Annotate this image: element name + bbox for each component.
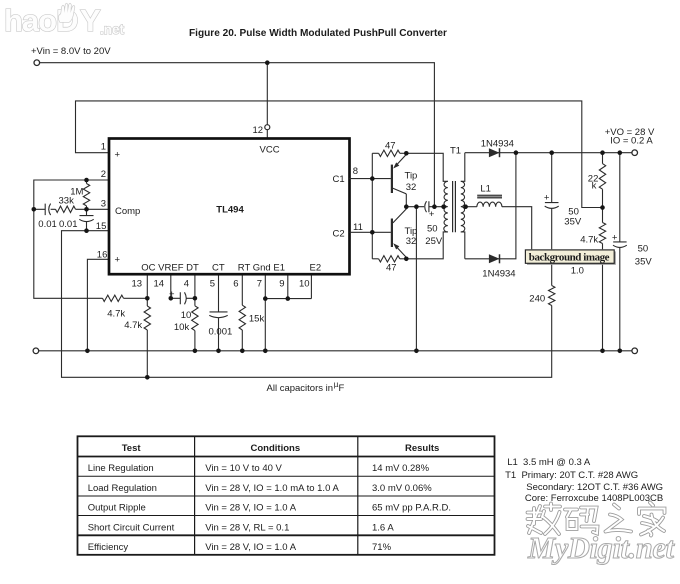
- junction pin9 link: [286, 296, 291, 301]
- svg-text:IO = 0.2 A: IO = 0.2 A: [610, 135, 653, 146]
- transistor Q2 collector: [393, 207, 406, 223]
- svg-text:16: 16: [97, 249, 108, 260]
- junction pin3 node: [84, 207, 89, 212]
- resistor 4.7k (output divider): [599, 223, 605, 244]
- junction pin8/base bus: [370, 176, 375, 181]
- transistor Q1 collector: [393, 188, 406, 206]
- junction pin7 link: [263, 296, 268, 301]
- svg-text:7: 7: [257, 279, 262, 290]
- svg-text:L1 3.5 mH @ 0.3 A: L1 3.5 mH @ 0.3 A: [507, 457, 591, 468]
- svg-text:15: 15: [96, 221, 107, 232]
- junction pin2/1M: [84, 178, 89, 183]
- svg-text:12: 12: [253, 125, 264, 136]
- svg-text:Vin = 28 V, IO = 1.0 A: Vin = 28 V, IO = 1.0 A: [205, 503, 297, 514]
- resistor 10k (pin4 to ground): [192, 306, 198, 331]
- svg-text:1N4934: 1N4934: [481, 139, 514, 150]
- svg-text:T1 Primary: 20T C.T. #28 AWG: T1 Primary: 20T C.T. #28 AWG: [505, 470, 638, 481]
- junction diode riser/output rail: [514, 150, 519, 155]
- svg-text:Conditions: Conditions: [251, 443, 301, 454]
- svg-text:Tip: Tip: [405, 226, 418, 237]
- svg-text:C2: C2: [333, 229, 345, 240]
- wire T1 secondary bottom riser: [461, 232, 465, 259]
- resistor 4.7k (vertical, pin13 to feedback rail): [144, 306, 150, 330]
- output +VO terminal: [632, 150, 638, 156]
- wire 4.7k to pin13 node: [124, 297, 148, 299]
- wire pin5 CT lead: [218, 274, 220, 312]
- svg-text:1: 1: [101, 142, 106, 153]
- svg-text:VCC: VCC: [260, 145, 280, 156]
- wire top +Vin rail to transformer center-tap drop: [40, 63, 435, 207]
- watermark chinese characters (shu ma zhi jia), outlined strokes: [528, 503, 665, 536]
- table row line 4: [78, 515, 495, 517]
- junction 10k/ground: [193, 349, 198, 354]
- svg-text:Tip: Tip: [405, 170, 418, 181]
- svg-text:Vin = 28 V, IO = 1.0 A: Vin = 28 V, IO = 1.0 A: [205, 542, 297, 553]
- svg-text:Secondary: 12OT C.T. #36 AWG: Secondary: 12OT C.T. #36 AWG: [526, 482, 663, 493]
- transformer T1 secondary winding: [461, 181, 465, 232]
- table column line 1: [194, 436, 196, 555]
- svg-text:+: +: [612, 233, 618, 244]
- capacitor 0.01 (pin3 to pin15): [79, 209, 93, 230]
- svg-text:1N4934: 1N4934: [482, 268, 515, 279]
- junction pin7/ground: [263, 349, 268, 354]
- svg-text:+: +: [544, 193, 550, 204]
- table column line 2: [357, 436, 359, 555]
- diode D2 1N4934 (bottom): [489, 254, 500, 263]
- resistor 240: [549, 286, 555, 306]
- wire 10k to ground rail: [194, 331, 196, 351]
- junction 22k/output rail: [600, 150, 605, 155]
- svg-text:Line Regulation: Line Regulation: [88, 463, 154, 474]
- transistor Q1 emitter with arrow: [395, 153, 406, 166]
- svg-text:+: +: [115, 150, 121, 161]
- svg-text:10: 10: [181, 310, 192, 321]
- svg-text:4.7k: 4.7k: [124, 320, 142, 331]
- wire pin7 Gnd lead to ground rail: [264, 274, 266, 351]
- svg-text:33k: 33k: [59, 195, 75, 206]
- junction pin12/Vin rail: [265, 60, 270, 65]
- wire pin3 Comp lead: [76, 208, 110, 210]
- wire pin15 to bottom feedback rail: [62, 231, 552, 378]
- pin 12 terminal circle: [265, 125, 270, 130]
- junction cap 50/35V left/output rail: [549, 150, 554, 155]
- resistor 33k: [56, 206, 76, 212]
- capacitor 50/35V (right, polarized): [613, 153, 627, 351]
- svg-text:F: F: [339, 383, 345, 394]
- junction cap 50/35V right/output rail: [618, 150, 623, 155]
- svg-text:35V: 35V: [564, 217, 582, 228]
- svg-text:RT Gnd E1: RT Gnd E1: [238, 263, 285, 274]
- svg-text:1.6 A: 1.6 A: [372, 523, 394, 534]
- wire output rail (diode cathodes to +VO terminal): [465, 152, 632, 154]
- wire base bus vertical: [371, 153, 373, 258]
- junction T1 secondary center tap: [463, 204, 468, 209]
- svg-text:14: 14: [154, 279, 165, 290]
- svg-text:25V: 25V: [425, 236, 443, 247]
- svg-text:0.01: 0.01: [59, 219, 78, 230]
- junction 47/Q1 emitter: [404, 151, 409, 156]
- svg-text:Vin = 28 V, RL = 0.1: Vin = 28 V, RL = 0.1: [205, 523, 289, 534]
- svg-text:35V: 35V: [635, 257, 653, 268]
- capacitor 0.001 (pin5 to ground): [209, 312, 227, 351]
- transistor Q2 emitter with arrow: [395, 245, 406, 259]
- svg-text:65 mV pp P.A.R.D.: 65 mV pp P.A.R.D.: [372, 503, 451, 514]
- table row line 5: [78, 534, 495, 536]
- junction pin11/base bus: [370, 230, 375, 235]
- junction cap 50/25V left: [414, 204, 419, 209]
- junction pin4/cap 10: [193, 296, 198, 301]
- svg-text:0.001: 0.001: [209, 327, 233, 338]
- svg-text:+: +: [115, 255, 121, 266]
- svg-text:9: 9: [279, 279, 284, 290]
- wire collector node to ground drop: [406, 207, 416, 351]
- wire pin11 C2 stub to Q2 base: [350, 231, 391, 233]
- svg-text:32: 32: [406, 182, 417, 193]
- svg-text:3.0 mV 0.06%: 3.0 mV 0.06%: [372, 483, 432, 494]
- svg-text:Vin = 10 V to 40 V: Vin = 10 V to 40 V: [205, 463, 282, 474]
- node +Vin input terminal: [34, 60, 40, 66]
- svg-text:4.7k: 4.7k: [580, 234, 598, 245]
- capacitor 10 (pin14 to pin4, polarized): [180, 292, 195, 304]
- junction node A divider tap: [600, 205, 605, 210]
- svg-text:11: 11: [353, 222, 363, 233]
- junction 47/Q2 emitter: [404, 257, 409, 262]
- resistor 4.7k (horizontal, pin13 row): [103, 295, 124, 301]
- svg-text:Output Ripple: Output Ripple: [88, 503, 146, 514]
- svg-text:4: 4: [184, 279, 189, 290]
- resistor 47 (bottom): [372, 258, 378, 260]
- diode D1 1N4934 (top): [489, 148, 500, 157]
- inductor L1 core bars: [477, 196, 502, 198]
- wire 22k to node A: [602, 189, 604, 222]
- junction cap 0.01 left column: [32, 207, 37, 212]
- svg-text:10k: 10k: [174, 322, 190, 333]
- svg-text:.net: .net: [100, 22, 125, 37]
- svg-text:47: 47: [385, 140, 396, 151]
- svg-text:71%: 71%: [372, 542, 392, 553]
- svg-text:4.7k: 4.7k: [107, 309, 125, 320]
- wire L1 output down to hidden node: [502, 207, 532, 250]
- ground rail: [39, 350, 632, 352]
- svg-text:1.0: 1.0: [571, 266, 584, 277]
- ground right terminal: [632, 348, 638, 354]
- svg-text:CT: CT: [212, 263, 225, 274]
- junction collector drop/ground: [414, 349, 419, 354]
- wire pin4 lead: [194, 274, 196, 306]
- svg-text:0.01: 0.01: [38, 219, 57, 230]
- svg-text:E2: E2: [310, 263, 322, 274]
- svg-text:2: 2: [101, 169, 106, 180]
- svg-text:All capacitors in: All capacitors in: [267, 383, 334, 394]
- junction pin13 node: [145, 296, 150, 301]
- wire bottom diode run: [465, 153, 516, 259]
- svg-text:Results: Results: [405, 443, 439, 454]
- wire secondary center tap to L1: [465, 206, 477, 208]
- svg-text:Comp: Comp: [115, 206, 140, 217]
- wire T1 secondary top riser: [461, 153, 465, 182]
- wire Q1 emitter to T1 primary top: [406, 153, 448, 181]
- svg-text:10: 10: [299, 279, 310, 290]
- svg-text:OC VREF DT: OC VREF DT: [141, 263, 199, 274]
- junction 15k/ground: [240, 349, 245, 354]
- table header separator: [78, 456, 495, 458]
- transistor Q2 Tip32 (bottom): base bar: [391, 219, 393, 248]
- wire T1 primary bottom to Q2 emitter: [406, 232, 448, 259]
- junction Vin drop/center tap: [432, 204, 437, 209]
- resistor 1M (pin2 to pin3): [86, 180, 88, 184]
- wire 4.7k lower lead to ground (passes tooltip box): [602, 244, 604, 351]
- wire 15k to ground rail: [241, 330, 243, 351]
- junction divider 4.7k/ground: [600, 349, 605, 354]
- junction pin16/ground: [85, 349, 90, 354]
- svg-text:15k: 15k: [249, 313, 265, 324]
- table outer border: [78, 436, 495, 555]
- svg-text:Test: Test: [122, 443, 142, 454]
- svg-text:8: 8: [353, 166, 358, 177]
- svg-text:14 mV 0.28%: 14 mV 0.28%: [372, 463, 430, 474]
- svg-text:Vin = 28 V, IO = 1.0 mA to 1.0: Vin = 28 V, IO = 1.0 mA to 1.0 A: [205, 483, 339, 494]
- svg-text:Figure 20. Pulse Width Modulat: Figure 20. Pulse Width Modulated PushPul…: [189, 28, 447, 39]
- svg-text:TL494: TL494: [216, 204, 244, 215]
- junction output cap/ground: [618, 349, 623, 354]
- svg-text:32: 32: [406, 236, 417, 247]
- wire pin6 RT lead: [241, 274, 243, 305]
- inductor L1: [477, 202, 502, 207]
- wire 4.7k lower lead to feedback rail: [146, 330, 148, 377]
- svg-text:3: 3: [101, 198, 106, 209]
- table row line 3: [78, 495, 495, 497]
- junction 4.7k/feedback rail: [145, 375, 150, 380]
- op-amp U1: IC TL494 body: [109, 139, 350, 275]
- svg-text:50: 50: [638, 244, 649, 255]
- transformer T1 primary winding: [444, 181, 448, 232]
- svg-text:6: 6: [233, 279, 238, 290]
- svg-text:Y: Y: [80, 3, 101, 38]
- capacitor 50/35V (left, polarized) upper lead: [545, 153, 559, 250]
- svg-text:Core: Ferroxcube 1408PL003CB: Core: Ferroxcube 1408PL003CB: [525, 493, 663, 504]
- junction collector node: [404, 204, 409, 209]
- wire pin2 to left column down to 4.7k row: [34, 180, 109, 298]
- svg-text:240: 240: [529, 294, 545, 305]
- wire pin12 VCC drop from +Vin rail: [266, 63, 268, 139]
- svg-text:47: 47: [386, 263, 397, 274]
- svg-text:+Vin = 8.0V to 20V: +Vin = 8.0V to 20V: [31, 46, 111, 57]
- capacitor 0.01 (series, left): [34, 204, 56, 216]
- wire pin14 lead: [171, 274, 181, 298]
- junction pin15/cap 0.01: [84, 228, 89, 233]
- capacitor 50/25V (polarized, at primary center tap): [416, 201, 444, 212]
- wire pin16 to ground rail: [87, 259, 109, 351]
- svg-text:k: k: [592, 181, 597, 192]
- transistor Q1 Tip32 (top): base bar: [391, 165, 393, 193]
- wire pins 9/10 E1 E2 link to pin7: [265, 274, 311, 298]
- junction 0.001/ground: [216, 349, 221, 354]
- ground left terminal: [33, 348, 39, 354]
- svg-text:C1: C1: [333, 174, 345, 185]
- svg-text:50: 50: [427, 223, 438, 234]
- svg-text:Short Circuit Current: Short Circuit Current: [88, 523, 175, 534]
- resistor 15k (pin6 to ground): [239, 305, 245, 330]
- svg-text:T1: T1: [450, 145, 461, 156]
- logo haoDIY.net watermark: [4, 3, 125, 38]
- svg-text:Load Regulation: Load Regulation: [88, 483, 157, 494]
- tooltip box: background image: [525, 250, 615, 265]
- results table: [78, 436, 495, 555]
- wire pin8 C1 stub to Q1 base: [350, 178, 391, 180]
- wire pin13 lead: [146, 274, 148, 306]
- transformer T1 core: [453, 181, 456, 232]
- svg-text:MyDigit.net: MyDigit.net: [527, 531, 675, 565]
- svg-text:+: +: [429, 209, 435, 220]
- svg-text:background image: background image: [529, 252, 610, 264]
- wire feedback rail: pin1 riser, top run, drop to divider node A: [76, 101, 602, 208]
- junction T1 primary center tap: [441, 204, 446, 209]
- svg-text:Efficiency: Efficiency: [88, 542, 129, 553]
- svg-text:13: 13: [132, 279, 143, 290]
- table row line 2: [78, 475, 495, 477]
- resistor 240 leads below tooltip box: [551, 264, 553, 286]
- resistor 47 (top): [372, 152, 378, 154]
- resistor 22k upper lead: [602, 153, 604, 164]
- junction pin14/cap 10: [169, 296, 174, 301]
- svg-text:L1: L1: [480, 184, 491, 195]
- svg-text:5: 5: [210, 279, 215, 290]
- resistor 22k: [599, 164, 605, 190]
